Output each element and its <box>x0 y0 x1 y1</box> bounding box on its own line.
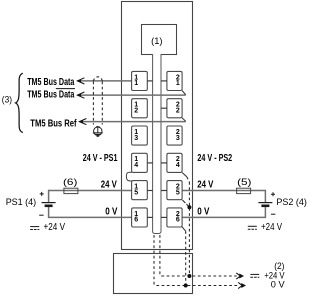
svg-text:0 V: 0 V <box>105 206 118 217</box>
svg-text:+24 V: +24 V <box>44 222 66 233</box>
svg-text:TM5 Bus Ref: TM5 Bus Ref <box>30 119 77 130</box>
svg-text:(5): (5) <box>237 177 251 188</box>
svg-text:0 V: 0 V <box>197 206 210 217</box>
svg-text:(3): (3) <box>2 95 12 106</box>
svg-text:1: 1 <box>176 80 180 87</box>
svg-text:6: 6 <box>176 217 180 224</box>
svg-text:24 V: 24 V <box>197 180 214 191</box>
svg-text:24 V - PS1: 24 V - PS1 <box>83 153 118 164</box>
svg-text:TM5 Bus Data: TM5 Bus Data <box>27 77 75 88</box>
svg-text:24 V: 24 V <box>101 180 118 191</box>
svg-text:PS1 (4): PS1 (4) <box>6 197 37 208</box>
svg-text:3: 3 <box>134 135 138 142</box>
svg-text:PS2 (4): PS2 (4) <box>276 197 307 208</box>
svg-text:5: 5 <box>176 189 180 196</box>
svg-text:4: 4 <box>134 162 138 169</box>
svg-text:TM5 Bus Data: TM5 Bus Data <box>27 90 75 101</box>
svg-text:24 V - PS2: 24 V - PS2 <box>197 153 232 164</box>
svg-text:5: 5 <box>134 189 138 196</box>
svg-text:3: 3 <box>176 135 180 142</box>
svg-text:+24 V: +24 V <box>261 222 282 233</box>
svg-text:2: 2 <box>134 108 138 115</box>
svg-text:(6): (6) <box>63 177 77 188</box>
svg-text:6: 6 <box>134 217 138 224</box>
svg-text:1: 1 <box>134 80 138 87</box>
svg-text:0 V: 0 V <box>271 279 286 290</box>
svg-text:4: 4 <box>176 162 180 169</box>
svg-text:(1): (1) <box>151 36 162 47</box>
svg-text:2: 2 <box>176 108 180 115</box>
